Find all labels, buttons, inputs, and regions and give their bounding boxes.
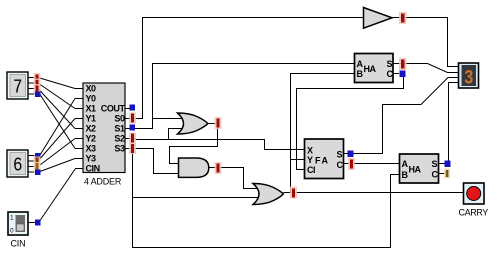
wire S0 net: S0 pin to riser to top bus to buffer input bbox=[133, 18, 363, 119]
wire S1 net: pin right, riser up, long bus to HA1 A bbox=[133, 64, 355, 129]
buffer triangle bbox=[364, 8, 393, 29]
svg-text:S0: S0 bbox=[114, 114, 125, 124]
svg-text:X1: X1 bbox=[86, 104, 97, 114]
svg-text:S3: S3 bbox=[114, 144, 125, 154]
wire S1 branch to OR1 input 1 bbox=[153, 118, 184, 120]
node X0 in (7 b0) high bbox=[34, 73, 41, 82]
or gate OR1 bbox=[178, 113, 208, 134]
or gate OR2 bbox=[253, 184, 283, 205]
node Y3 in low bbox=[35, 170, 41, 176]
svg-text:HA: HA bbox=[364, 64, 377, 74]
node COUT low bbox=[130, 105, 136, 111]
node S2 high bbox=[129, 133, 136, 144]
node HA1 C low bbox=[400, 71, 406, 78]
display 3 bbox=[459, 63, 479, 91]
svg-text:7: 7 bbox=[13, 77, 23, 99]
node FA S low bbox=[348, 151, 354, 158]
input connector 6 bbox=[7, 150, 28, 177]
adder left pin stubs bbox=[75, 89, 83, 169]
wire HA2 S riser to display pin4 bbox=[439, 83, 459, 164]
wire OR1 output down, left, down to AND input 1 bbox=[170, 124, 218, 164]
svg-text:0: 0 bbox=[10, 228, 14, 235]
svg-text:C: C bbox=[432, 170, 439, 180]
switch CIN bbox=[8, 212, 28, 249]
svg-text:A: A bbox=[402, 159, 409, 169]
full adder FA bbox=[297, 139, 350, 179]
input connector 7 bbox=[7, 72, 28, 99]
connector 7 pin stubs bbox=[28, 78, 35, 95]
svg-text:X0: X0 bbox=[86, 84, 97, 94]
node FA C high bbox=[348, 158, 355, 170]
svg-text:CARRY: CARRY bbox=[459, 208, 489, 218]
half adder HA2 bbox=[392, 154, 439, 183]
wire AND output to OR2 input 1 bbox=[209, 168, 258, 189]
wire S2 net: long horizontal, jog down to FA X bbox=[133, 139, 305, 150]
svg-text:C: C bbox=[387, 69, 394, 79]
wire FA S up and over to display pin3 bbox=[344, 78, 459, 154]
node HA2 C high (dim) bbox=[444, 169, 450, 179]
node S3 high bbox=[129, 143, 136, 154]
svg-text:S1: S1 bbox=[114, 124, 125, 134]
svg-text:HA: HA bbox=[409, 165, 422, 175]
svg-text:X3: X3 bbox=[86, 144, 97, 154]
node HA1 S high bbox=[399, 58, 407, 70]
svg-text:4 ADDER: 4 ADDER bbox=[84, 177, 122, 187]
svg-text:B: B bbox=[357, 69, 364, 79]
svg-text:Y1: Y1 bbox=[86, 114, 97, 124]
node OR1 out high bbox=[215, 117, 222, 129]
svg-text:COUT: COUT bbox=[101, 104, 126, 114]
node CIN in low bbox=[35, 220, 41, 226]
node Y0 in low bbox=[35, 153, 41, 159]
wire HA2 C stub bbox=[439, 173, 447, 175]
svg-text:S2: S2 bbox=[114, 134, 125, 144]
half adder HA1 bbox=[347, 54, 399, 83]
CIN stub and wire to adder CIN bbox=[28, 222, 35, 224]
node X2 in high bbox=[34, 84, 41, 93]
svg-text:CI: CI bbox=[307, 165, 315, 175]
svg-text:B: B bbox=[402, 170, 409, 180]
node S1 low bbox=[130, 125, 136, 131]
node X3 in low bbox=[35, 92, 41, 98]
svg-text:S: S bbox=[432, 159, 438, 169]
wire HA1 S to display pin2 bbox=[393, 64, 459, 73]
svg-text:1: 1 bbox=[10, 215, 14, 222]
svg-text:CIN: CIN bbox=[11, 239, 26, 249]
connector 6 pin stubs bbox=[28, 156, 35, 173]
4 ADDER box bbox=[83, 83, 125, 187]
and gate AND1 bbox=[179, 158, 209, 177]
svg-text:X2: X2 bbox=[86, 124, 97, 134]
svg-text:S: S bbox=[337, 150, 343, 160]
wire S3 branch to OR2 input 2 bbox=[133, 197, 259, 199]
wire S3 vertical to bottom bus to HA2 B bbox=[133, 149, 401, 248]
wire FA C to HA2 A bbox=[344, 163, 401, 165]
node HA2 S low bbox=[445, 161, 451, 168]
node S0 high bbox=[129, 113, 136, 124]
node buffer out high bbox=[399, 12, 407, 24]
adder right pin stubs bbox=[125, 109, 133, 149]
svg-text:3: 3 bbox=[464, 68, 474, 91]
svg-text:CIN: CIN bbox=[86, 164, 100, 174]
svg-text:S: S bbox=[387, 59, 393, 69]
node X1 in high bbox=[34, 79, 41, 88]
node Y1 in high (dim) bbox=[34, 157, 41, 167]
wires input 7 fanout to X0..X3 bbox=[38, 78, 75, 149]
wire S2 branch up to OR1 input 2 bbox=[169, 129, 184, 140]
wire HA1 C down, left, down to FA CI bbox=[297, 74, 404, 170]
svg-text:A: A bbox=[357, 59, 364, 69]
state marks: red=high tick with halo, blue=low square bbox=[34, 12, 451, 226]
node Y2 in high (dim) bbox=[34, 162, 41, 172]
wire S3 net: right, down, to AND input 2 bbox=[133, 149, 180, 174]
svg-text:Y0: Y0 bbox=[86, 94, 97, 104]
svg-text:6: 6 bbox=[13, 155, 23, 177]
svg-text:A: A bbox=[322, 156, 329, 166]
svg-text:X: X bbox=[307, 146, 313, 156]
node AND out high bbox=[215, 162, 222, 174]
wire K branch to FA Y bbox=[291, 159, 306, 161]
LED CARRY bbox=[459, 183, 489, 218]
wire K riser to HA1 B bbox=[291, 74, 356, 193]
wire K net: OR2 output to CARRY LED bbox=[283, 192, 463, 194]
svg-text:Y2: Y2 bbox=[86, 134, 97, 144]
wires input 6 fanout to Y0..Y3 bbox=[38, 99, 75, 172]
wire buffer output to display pin1 bbox=[392, 18, 459, 67]
svg-text:C: C bbox=[337, 160, 344, 170]
svg-text:Y3: Y3 bbox=[86, 154, 97, 164]
node OR2 out high bbox=[290, 187, 297, 199]
svg-text:Y: Y bbox=[307, 155, 313, 165]
